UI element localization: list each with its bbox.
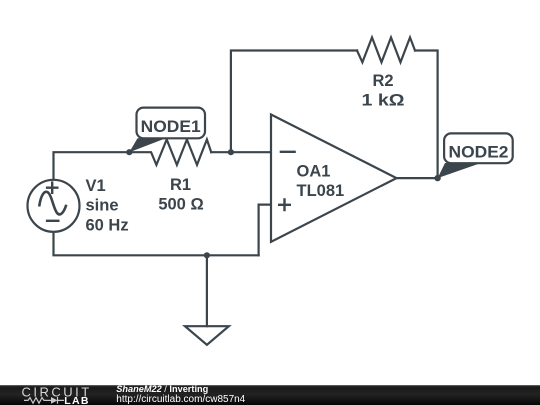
wire R2 right lead down to output node [415,51,438,179]
wire feedback riser from node B up and across to R2 [231,51,357,153]
svg-text:500 Ω: 500 Ω [158,196,203,214]
node ground junction dot [204,252,210,258]
NODE2 callout box [444,133,513,163]
svg-text:ShaneM22 / Inverting: ShaneM22 / Inverting [116,384,208,394]
op-amp inverting input minus sign [280,151,296,153]
svg-text:OA1: OA1 [297,163,331,181]
ground symbol triangle [185,326,229,345]
node C dot (output NODE2 junction) [434,175,440,181]
V1 plus sign [46,181,59,194]
NODE1 callout pointer [129,138,166,152]
svg-text:NODE1: NODE1 [141,118,201,136]
svg-text:60 Hz: 60 Hz [86,216,129,234]
resistor R1 zigzag [129,140,211,165]
CircuitLab logo diode triangle [51,397,58,404]
wire R1 right lead to op-amp inverting input [211,151,271,153]
wire op-amp non-inverting input down to bottom rail [259,205,271,256]
svg-text:V1: V1 [86,177,106,195]
svg-text:NODE2: NODE2 [449,144,509,162]
footer bar [0,385,540,405]
wire from V1 top to node A [54,152,130,180]
svg-text:TL081: TL081 [297,182,345,200]
V1 minus sign [46,220,60,222]
svg-text:http://circuitlab.com/cw857n4: http://circuitlab.com/cw857n4 [116,394,245,405]
resistor R2 zigzag [357,37,415,62]
CircuitLab logo resistor-diode underline [24,397,64,404]
svg-text:sine: sine [86,197,119,215]
op-amp non-inverting input plus sign [278,198,291,211]
node A dot (NODE1 junction) [126,149,132,155]
op-amp U1 triangle body [271,115,397,242]
svg-text:R1: R1 [170,176,191,194]
wire op-amp output to node C [397,177,438,179]
svg-text:LAB: LAB [64,395,89,405]
V1 sine wave [39,192,66,215]
node B dot (inverting input junction) [228,149,234,155]
voltage source V1 circle [28,180,80,232]
svg-text:1 kΩ: 1 kΩ [362,92,405,110]
wire ground stem [206,255,208,326]
wire bottom rail from V1 to non-inverting branch [54,232,259,256]
NODE2 callout pointer [438,163,481,178]
NODE1 callout box [137,108,206,139]
svg-text:R2: R2 [372,72,393,90]
